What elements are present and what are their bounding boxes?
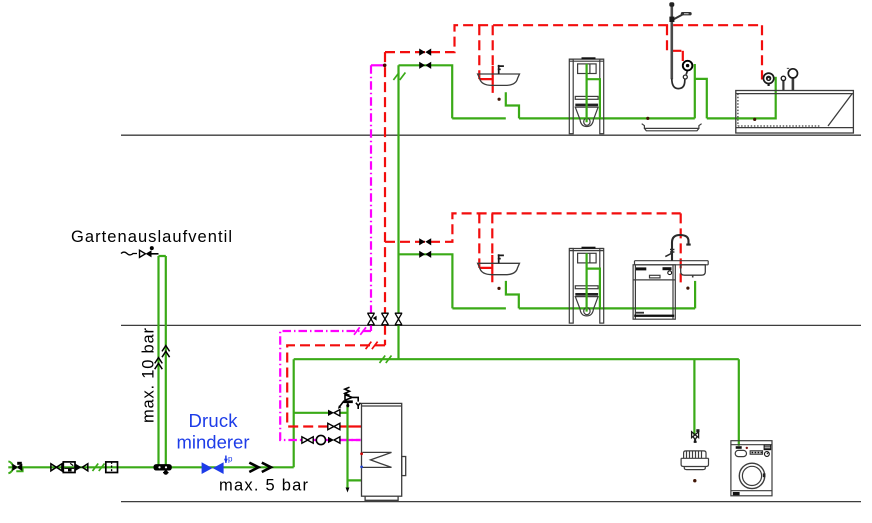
washing machine <box>731 441 772 496</box>
drain dot washbasin 2 <box>497 287 500 290</box>
bathtub mixer <box>763 73 773 83</box>
cold water feed to heater <box>294 412 328 414</box>
floor line 1 (top storey) <box>121 134 861 136</box>
valve hot heater line (open bowtie) <box>328 423 340 429</box>
shower tray <box>642 124 702 131</box>
heater sensor dots <box>360 452 363 455</box>
cold drop to washing machine <box>738 359 740 446</box>
washbasin 1 connection tick <box>492 25 494 66</box>
cold water stub washbasin 2 <box>506 281 519 309</box>
circulation pipe to heater <box>280 331 371 440</box>
shower mixer <box>683 61 693 71</box>
drain tap on circulation valve <box>373 316 377 321</box>
washing machine foot <box>733 492 740 495</box>
filter <box>106 462 118 473</box>
toilet 1 flush pipes (green) <box>587 64 600 122</box>
junction dot circulation/hot <box>383 64 387 68</box>
water heater body <box>362 403 406 500</box>
kitchen faucet <box>672 235 691 261</box>
drain arrow below heater <box>346 488 350 493</box>
utility tap <box>692 432 699 440</box>
toilet 1 <box>569 59 603 134</box>
valve hot riser <box>381 313 388 325</box>
pipe break symbol on main <box>93 464 105 472</box>
valve circulation riser <box>367 313 374 325</box>
hot water pipe from heater <box>287 345 385 426</box>
garden outlet valve <box>121 252 137 255</box>
hot water riser (red, dashed) <box>384 52 386 345</box>
cold water main line (basement) <box>8 466 293 468</box>
circulation riser (magenta, dash-dot) <box>370 65 372 331</box>
hot water drop to kitchen sink <box>680 213 682 282</box>
junction dot on cold floor run <box>646 117 649 120</box>
cold water branch middle floor <box>399 254 453 308</box>
bathtub hand shower holder <box>782 81 784 91</box>
dishwasher base <box>634 315 674 317</box>
washing machine controls <box>764 445 772 451</box>
water meter <box>63 462 75 473</box>
shut-off valve cold top floor <box>419 62 431 69</box>
cold water floor run top floor <box>452 117 776 119</box>
shut-off valve hot top floor <box>419 49 431 56</box>
svg-text:Gartenauslaufventil: Gartenauslaufventil <box>71 228 232 246</box>
valve cold heater line (solid/open) <box>328 410 340 416</box>
svg-text:max. 10 bar: max. 10 bar <box>140 328 158 424</box>
toilet 2 dark cap <box>582 247 596 249</box>
hot water branch top floor <box>385 25 762 52</box>
hot water drop to bathtub <box>761 25 763 79</box>
cold water riser bathtub <box>775 77 777 120</box>
valve circulation left (open bowtie) <box>302 437 313 443</box>
flow arrows on garden riser <box>155 346 170 370</box>
svg-text:max. 5 bar: max. 5 bar <box>219 477 309 495</box>
check valve <box>76 464 82 471</box>
washbasin 2 faucet <box>498 254 504 263</box>
drain dot washbasin 1 <box>498 98 501 101</box>
shut-off valve before meter <box>51 464 62 471</box>
heater element symbol <box>362 452 391 467</box>
pipe break symbol circulation <box>354 327 366 335</box>
valve circulation right (solid/open) <box>328 437 340 443</box>
shut-off valve hot middle floor <box>419 238 431 245</box>
pipe break symbol on cold riser top <box>393 73 405 81</box>
bathtub head knob <box>792 78 795 91</box>
washing machine door <box>739 463 764 488</box>
hot water drop to shower <box>667 25 683 51</box>
garden riser double pipe <box>159 256 166 467</box>
shower head arm <box>673 14 683 20</box>
toilet 1 seat bar <box>575 104 598 107</box>
shower mixer feed (red solid) <box>682 51 684 61</box>
cold water riser (green) <box>397 65 399 359</box>
hot water branch middle floor <box>385 213 681 241</box>
kitchen counter <box>635 261 709 265</box>
svg-text:minderer: minderer <box>177 432 250 453</box>
safety valve group <box>340 387 361 409</box>
shower hose <box>672 71 688 89</box>
cold water riser shower <box>695 64 707 118</box>
drain dot kitchen sink <box>686 287 689 290</box>
entry shut-off valve <box>12 464 22 471</box>
utility sink <box>681 451 708 470</box>
cold water floor run middle floor <box>452 307 695 309</box>
floor line 2 (middle storey) <box>121 324 861 326</box>
washbasin 2 bowl <box>478 263 520 274</box>
toilet 2 flush pipes (green) <box>587 253 600 311</box>
cold water branch top floor <box>399 65 453 118</box>
cold water stub kitchen sink <box>694 281 696 309</box>
washbasin 1 bowl <box>478 74 520 85</box>
heater cold inlet vertical <box>348 405 362 488</box>
junction dot bathtub cold <box>753 118 756 121</box>
floor line 3 (basement) <box>121 501 861 503</box>
flow arrows main line <box>249 463 271 472</box>
dishwasher controls <box>636 267 647 270</box>
shower rail clamp <box>669 17 674 22</box>
toilet 2 <box>569 249 603 324</box>
cold drop to utility tap <box>693 359 695 435</box>
washbasin 1 faucet <box>498 65 504 74</box>
svg-text:p: p <box>228 455 233 464</box>
svg-text:Druck: Druck <box>189 410 239 431</box>
pressure reducer (blue) <box>202 462 224 474</box>
cold water ceiling distribution basement <box>294 358 739 360</box>
washbasin 2 connection tick <box>491 213 493 255</box>
cold water stub washbasin 1 <box>506 92 519 118</box>
pipe break symbol on ceiling cold line <box>380 356 392 364</box>
dishwasher <box>633 265 675 319</box>
pressure gauge stem <box>225 456 227 463</box>
valve cold riser <box>395 313 402 325</box>
circulation tee into hot riser <box>371 64 385 66</box>
hot water drop to washbasin 2 <box>478 213 480 268</box>
bathtub <box>736 91 854 134</box>
toilet 1 dark cap <box>582 57 596 59</box>
pipe break symbol hot <box>366 342 378 350</box>
circulation pump <box>316 435 325 444</box>
shut-off valve cold middle floor <box>419 251 431 258</box>
toilet 2 seat bar <box>575 293 598 296</box>
cold water vertical to ceiling distribution <box>293 359 295 467</box>
kitchen sink bowl <box>681 265 706 275</box>
drain dot utility sink <box>693 479 696 482</box>
house entry symbol <box>8 461 13 473</box>
hot water drop to washbasin 1 <box>478 25 480 79</box>
in-line fitting at garden tee <box>154 464 172 470</box>
shower rail <box>670 5 673 79</box>
